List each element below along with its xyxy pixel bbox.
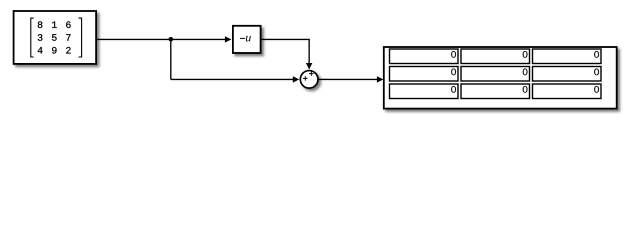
display cell r3c1 [390, 84, 459, 99]
sum block [300, 71, 318, 89]
matrix right bracket [79, 18, 82, 57]
display value r3c2 [523, 86, 528, 93]
display block [384, 47, 617, 109]
sum plus sign for top input [309, 71, 313, 75]
display value r1c3 [594, 51, 599, 58]
matrix values row 2: 3 5 7 [38, 34, 71, 41]
display cell r1c1 [390, 49, 459, 64]
display value r1c1 [451, 51, 456, 58]
display cell r3c3 [533, 84, 602, 99]
display value r2c3 [594, 69, 599, 76]
display cell r2c2 [461, 67, 530, 82]
display cell r1c3 [533, 49, 602, 64]
arrowhead into display [377, 76, 384, 82]
wire: branch down [170, 39, 172, 79]
display value r2c2 [523, 69, 528, 76]
matrix left bracket [31, 18, 34, 57]
arrowhead into sum top input [306, 63, 312, 70]
display cell r2c1 [390, 67, 459, 82]
wire: constant output to unary minus [97, 38, 225, 40]
display cell r3c2 [461, 84, 530, 99]
display value r3c3 [594, 86, 599, 93]
sum plus sign for left input [303, 76, 307, 80]
arrowhead into sum left input [293, 76, 300, 82]
matrix values row 1: 8 1 6 [38, 21, 71, 28]
display cell r2c3 [533, 67, 602, 82]
unary minus block [233, 26, 261, 53]
wire: branch to sum [171, 78, 294, 80]
unary minus label italic u glyph [246, 36, 251, 42]
wire: unary minus output to sum top [261, 39, 309, 63]
matrix values row 3: 4 9 2 [38, 47, 71, 54]
display cell r1c2 [461, 49, 530, 64]
wire: sum output to display [318, 78, 377, 80]
display value r3c1 [451, 86, 456, 93]
display value r2c1 [451, 69, 456, 76]
constant block (magic square matrix) [14, 11, 97, 64]
display value r1c2 [523, 51, 528, 58]
arrowhead into unary minus [225, 36, 232, 42]
branch junction node [169, 37, 174, 42]
unary minus label minus sign [240, 37, 245, 39]
